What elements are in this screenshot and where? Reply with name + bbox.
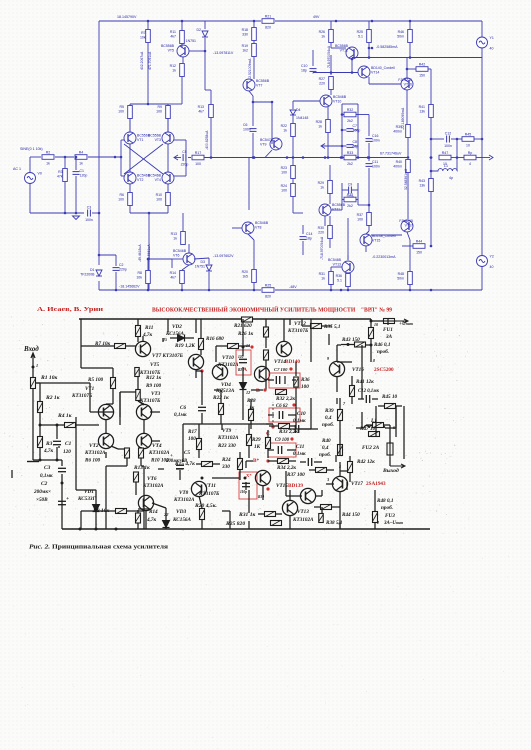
svg-text:R36: R36 — [336, 274, 342, 278]
wire — [120, 140, 122, 176]
transistor VT3 — [136, 404, 151, 419]
wire — [337, 344, 341, 346]
resistor R1 — [31, 378, 36, 389]
wire — [339, 398, 341, 404]
wire — [295, 362, 297, 376]
svg-text:BD139: BD139 — [288, 483, 303, 489]
red node dot — [266, 487, 269, 490]
wire — [248, 424, 250, 434]
svg-text:В: В — [256, 388, 260, 394]
wire — [194, 258, 209, 259]
wire — [336, 398, 338, 404]
svg-text:R7: R7 — [141, 31, 146, 35]
wire — [331, 47, 346, 49]
wire — [321, 507, 323, 513]
wire — [245, 461, 247, 468]
svg-text:1k: 1k — [46, 161, 50, 165]
svg-text:R6 100: R6 100 — [85, 458, 101, 464]
wire — [56, 425, 58, 439]
svg-text:62p: 62p — [353, 145, 359, 149]
wire — [129, 119, 131, 132]
wire — [199, 496, 202, 508]
wire — [336, 376, 338, 392]
wire — [289, 319, 291, 325]
wire — [326, 483, 334, 485]
wire — [137, 510, 139, 513]
resistor R21 — [242, 317, 253, 322]
wire — [75, 157, 77, 170]
svg-text:R26: R26 — [319, 30, 325, 34]
wire — [152, 503, 166, 508]
svg-text:R44 150: R44 150 — [342, 512, 360, 518]
wire — [276, 513, 282, 515]
svg-text:13k: 13k — [419, 110, 425, 114]
wire — [292, 379, 296, 381]
transistor VT13 — [282, 500, 297, 515]
resistor R17 — [197, 439, 202, 450]
wire — [258, 513, 264, 515]
svg-text:R42 12к: R42 12к — [357, 459, 375, 465]
wire — [266, 423, 273, 425]
wire — [64, 182, 66, 213]
svg-text:18p: 18p — [306, 237, 312, 241]
arrow — [489, 155, 493, 160]
resistor R3 — [38, 437, 43, 448]
wire — [188, 157, 191, 159]
wire — [105, 452, 107, 458]
wire — [301, 319, 303, 326]
wire — [314, 461, 322, 463]
wire — [130, 103, 168, 105]
svg-text:R40: R40 — [396, 160, 402, 164]
transistor VT17 — [332, 476, 347, 491]
svg-text:R22: R22 — [281, 124, 287, 128]
wire — [328, 334, 330, 345]
svg-text:R11: R11 — [145, 325, 154, 331]
resistor R44 — [413, 239, 425, 254]
svg-text:VT13: VT13 — [297, 509, 309, 515]
wire — [342, 114, 344, 116]
wire — [302, 225, 304, 234]
wire — [245, 482, 247, 490]
svg-text:КТ3102А: КТ3102А — [173, 497, 195, 503]
wire — [351, 376, 353, 385]
transistor VT19 — [188, 354, 203, 369]
wire — [310, 398, 312, 429]
svg-text:BC546B: BC546B — [333, 95, 347, 99]
capacitor C6b — [279, 411, 282, 419]
wire — [90, 411, 99, 413]
wire — [167, 206, 169, 213]
junction — [340, 156, 343, 159]
wire — [40, 424, 64, 426]
svg-text:BC547C: BC547C — [260, 138, 274, 142]
wire — [481, 21, 483, 37]
svg-text:R40: R40 — [322, 438, 331, 444]
wire — [339, 444, 341, 456]
svg-text:18p: 18p — [301, 69, 307, 73]
wire — [195, 319, 197, 333]
wire — [374, 523, 376, 529]
wire — [370, 339, 372, 363]
arrow — [174, 155, 178, 160]
wire — [201, 520, 203, 529]
svg-text:2k2: 2k2 — [347, 119, 353, 123]
wire — [253, 283, 255, 290]
wire — [170, 337, 177, 339]
wire — [147, 43, 149, 104]
junction — [253, 156, 256, 159]
svg-text:С6: С6 — [180, 405, 186, 411]
svg-text:R3: R3 — [58, 170, 63, 174]
svg-text:FJL4215: FJL4215 — [399, 219, 413, 223]
svg-text:Вход: Вход — [23, 345, 39, 353]
svg-text:14: 14 — [246, 344, 250, 348]
svg-text:0,1мк: 0,1мк — [293, 418, 306, 424]
svg-text:1k: 1k — [283, 129, 287, 133]
svg-text:200мк×: 200мк× — [33, 489, 51, 495]
svg-text:-2.521009mA: -2.521009mA — [248, 58, 252, 79]
junction — [253, 156, 256, 159]
resistor R5 — [118, 105, 132, 119]
junction — [95, 528, 98, 531]
svg-text:R33 2,2к: R33 2,2к — [279, 429, 298, 435]
svg-text:FU3: FU3 — [385, 513, 395, 519]
junction — [341, 129, 344, 132]
svg-text:R30: R30 — [318, 226, 324, 230]
wire — [204, 21, 206, 29]
wire — [148, 213, 150, 290]
wire — [249, 91, 253, 96]
wire — [265, 360, 267, 390]
svg-text:VT9: VT9 — [260, 143, 266, 147]
svg-text:0,1мк: 0,1мк — [174, 412, 187, 418]
svg-text:40: 40 — [490, 265, 494, 269]
svg-text:VT14: VT14 — [371, 71, 379, 75]
junction — [409, 56, 412, 59]
wire — [370, 319, 372, 328]
wire — [430, 69, 432, 104]
wire — [451, 138, 462, 140]
wire — [327, 469, 334, 471]
wire — [182, 57, 184, 63]
svg-text:FJL4215: FJL4215 — [398, 78, 412, 82]
source Y1 — [477, 36, 494, 51]
wire — [451, 157, 464, 159]
resistor R28 — [316, 120, 331, 133]
wire — [315, 495, 322, 497]
capacitor C1 — [73, 169, 88, 178]
svg-text:100p: 100p — [353, 129, 361, 133]
svg-text:R42: R42 — [419, 62, 425, 66]
svg-text:В*: В* — [253, 458, 259, 464]
svg-text:D2: D2 — [197, 28, 202, 32]
wire — [292, 137, 294, 158]
svg-text:R44: R44 — [416, 239, 422, 243]
wire — [368, 21, 370, 30]
resistor R45 — [462, 132, 474, 147]
svg-text:471.7091uA: 471.7091uA — [148, 51, 152, 70]
wire — [215, 346, 217, 362]
svg-text:VT17: VT17 — [405, 224, 413, 228]
resistor R29 — [318, 181, 333, 194]
wire — [252, 133, 254, 158]
wire — [167, 319, 169, 332]
resistor R11 — [170, 30, 184, 44]
wire — [347, 287, 349, 290]
wire — [98, 281, 100, 290]
junction — [340, 289, 343, 292]
svg-text:2k2: 2k2 — [347, 204, 353, 208]
red node dot — [271, 425, 274, 428]
resistor R48 — [373, 512, 378, 523]
wire — [356, 199, 358, 201]
junction — [406, 68, 409, 71]
resistor R34 — [278, 459, 289, 464]
svg-text:400m: 400m — [393, 165, 402, 169]
svg-text:С5: С5 — [184, 450, 190, 456]
svg-text:18.145790V: 18.145790V — [117, 15, 137, 19]
svg-text:C3: C3 — [87, 205, 92, 209]
svg-text:C16: C16 — [372, 134, 378, 138]
svg-text:C1: C1 — [80, 169, 85, 173]
wire — [30, 212, 84, 214]
svg-text:VT5: VT5 — [150, 362, 160, 368]
wire — [403, 437, 405, 459]
svg-text:2: 2 — [376, 520, 379, 525]
svg-text:1k: 1k — [320, 186, 324, 190]
capacitor C3 — [58, 468, 66, 471]
wire — [189, 50, 205, 52]
svg-text:R32: R32 — [347, 108, 353, 112]
wire — [129, 184, 131, 193]
junction — [201, 477, 204, 480]
wire — [474, 138, 482, 140]
transistor VT2 — [98, 433, 113, 448]
transistor VT7 — [243, 79, 270, 91]
diode VD2 — [178, 335, 185, 342]
transistor VT15 — [360, 234, 396, 246]
wire — [358, 204, 369, 206]
junction — [324, 156, 327, 159]
junction — [115, 528, 118, 531]
wire — [322, 325, 332, 327]
wire +U rail — [79, 318, 371, 320]
svg-text:VT10: VT10 — [333, 100, 341, 104]
svg-text:C6: C6 — [243, 123, 248, 127]
junction — [430, 170, 433, 173]
junction — [341, 145, 344, 148]
wire — [265, 337, 267, 348]
wire — [290, 425, 296, 427]
wire — [288, 428, 295, 430]
wire — [99, 411, 113, 413]
wire — [220, 415, 222, 424]
wire — [312, 50, 314, 66]
svg-text:R41: R41 — [419, 105, 425, 109]
wire — [368, 115, 370, 137]
diode VD4 — [240, 383, 247, 390]
wire — [352, 189, 358, 191]
wire — [267, 430, 269, 437]
arrow — [321, 144, 325, 149]
svg-text:L1: L1 — [444, 164, 448, 168]
resistor Rp — [464, 151, 476, 166]
wire — [11, 470, 13, 478]
resistor R10 — [139, 448, 144, 458]
wire — [35, 382, 40, 384]
wire — [395, 406, 397, 428]
wire — [167, 119, 169, 132]
svg-text:R48 0,1: R48 0,1 — [377, 498, 394, 504]
junction — [252, 156, 255, 159]
wire — [76, 424, 99, 426]
transistor VT12 — [335, 44, 358, 59]
dashed section line — [272, 404, 274, 428]
wire — [396, 405, 402, 407]
svg-text:R33: R33 — [347, 151, 353, 155]
svg-text:проб.: проб. — [377, 348, 389, 355]
wire — [309, 469, 315, 471]
wire — [430, 192, 432, 246]
svg-text:R8: R8 — [138, 271, 143, 275]
svg-text:1k: 1k — [173, 237, 177, 241]
wire — [341, 104, 343, 158]
resistor R9 — [136, 390, 141, 401]
wire — [389, 457, 391, 466]
svg-text:ВЫСОКОКАЧЕСТВЕННЫЙ ЭКОНОМИЧНЫЙ: ВЫСОКОКАЧЕСТВЕННЫЙ ЭКОНОМИЧНЫЙ УСИЛИТЕЛЬ… — [152, 306, 392, 314]
svg-text:100: 100 — [301, 384, 309, 390]
diode D2 — [197, 28, 208, 37]
source Y2 — [477, 255, 494, 270]
svg-text:0,1мк: 0,1мк — [40, 473, 53, 479]
transistor VT6 — [138, 495, 153, 510]
junction — [61, 482, 64, 485]
junction — [253, 289, 256, 292]
svg-text:Y1: Y1 — [490, 36, 494, 40]
svg-text:R28: R28 — [316, 120, 322, 124]
ground — [73, 216, 80, 220]
junction — [330, 71, 333, 74]
svg-text:1k: 1k — [321, 277, 325, 281]
svg-text:100: 100 — [156, 198, 162, 202]
svg-text:1N751: 1N751 — [186, 39, 196, 43]
junction — [335, 20, 338, 23]
svg-text:3: 3 — [326, 477, 329, 482]
wire — [368, 77, 370, 84]
wire — [130, 212, 168, 214]
wire — [292, 158, 294, 167]
svg-text:BC546B: BC546B — [148, 174, 162, 178]
capacitor C8 — [242, 483, 250, 486]
wire — [296, 428, 311, 430]
wire — [375, 406, 377, 437]
svg-text:100: 100 — [195, 162, 201, 166]
wire — [292, 179, 294, 184]
wire — [314, 506, 320, 508]
resistor R7 — [140, 30, 150, 43]
svg-text:R6: R6 — [120, 193, 125, 197]
svg-text:+: + — [66, 496, 69, 502]
resistor R10 — [156, 193, 171, 206]
wire — [268, 379, 274, 381]
wire — [181, 21, 183, 30]
wire — [289, 460, 296, 462]
svg-text:C14: C14 — [306, 232, 312, 236]
wire — [339, 462, 341, 471]
wire — [337, 361, 352, 363]
wire — [374, 505, 376, 511]
wire — [95, 512, 97, 529]
wire — [81, 510, 115, 512]
ground bar — [27, 461, 39, 463]
capacitor C8 — [347, 140, 359, 149]
capacitor C12 — [444, 131, 452, 148]
wire -48V rail — [275, 289, 482, 291]
junction — [430, 156, 433, 159]
wire — [378, 405, 384, 407]
wire — [242, 340, 244, 356]
wire — [182, 213, 184, 231]
svg-text:FU2 2А: FU2 2А — [362, 445, 380, 451]
capacitor C3 — [85, 205, 93, 222]
wire — [339, 471, 341, 477]
wire — [342, 199, 344, 201]
svg-text:R25: R25 — [265, 283, 271, 287]
wire — [39, 448, 41, 460]
wire — [221, 424, 223, 430]
wire — [342, 145, 347, 147]
svg-text:0,1мк: 0,1мк — [293, 451, 306, 457]
capacitor C7 — [276, 376, 279, 384]
wire — [409, 21, 411, 30]
svg-text:VT16: VT16 — [404, 83, 412, 87]
svg-text:BC556B: BC556B — [332, 203, 346, 207]
wire — [354, 129, 359, 131]
transistor VT1 — [124, 132, 151, 144]
svg-text:R45 10: R45 10 — [382, 394, 398, 400]
wire — [239, 452, 241, 458]
svg-text:КТ3107Б: КТ3107Б — [287, 328, 309, 334]
wire feedback — [35, 382, 90, 384]
wire — [126, 345, 136, 347]
resistor R13 — [134, 472, 139, 482]
capacitor C1 — [53, 441, 61, 444]
junction — [244, 477, 247, 480]
wire +49V rail — [99, 20, 261, 22]
junction — [147, 258, 150, 261]
wire — [395, 406, 397, 437]
svg-text:С11: С11 — [296, 444, 305, 450]
svg-text:-48V: -48V — [289, 285, 297, 289]
wire — [232, 227, 242, 229]
wire — [356, 427, 364, 429]
svg-text:1N4148: 1N4148 — [296, 116, 308, 120]
resistor R21 — [262, 14, 274, 29]
resistor R44 — [321, 505, 332, 510]
transistor VT9b — [255, 470, 270, 485]
junction — [351, 71, 354, 74]
junction — [64, 156, 67, 159]
wire — [165, 508, 167, 520]
resistor R37 — [357, 213, 372, 226]
junction — [242, 346, 245, 349]
wire — [118, 448, 127, 450]
svg-text:R18: R18 — [242, 28, 248, 32]
svg-text:VT4: VT4 — [152, 443, 162, 449]
svg-text:BC546B: BC546B — [328, 258, 342, 262]
wire — [147, 21, 149, 30]
